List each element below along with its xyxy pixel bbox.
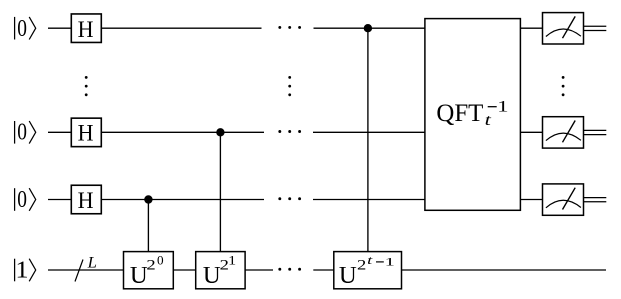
control dot c0 on q2	[144, 195, 152, 203]
meter q0	[543, 13, 584, 44]
bus slash L on target wire	[75, 255, 97, 282]
wire target right	[402, 269, 607, 271]
wire q0 to meter	[520, 27, 542, 29]
wire q2 left	[48, 199, 71, 201]
wire q1 left	[48, 131, 71, 133]
gate H q1	[71, 118, 101, 146]
ellipsis dots q0	[278, 26, 301, 29]
wire q1 to meter	[520, 131, 542, 133]
svg-text:H: H	[78, 121, 94, 146]
svg-text:0: 0	[157, 254, 164, 268]
classical double line q2	[584, 198, 607, 202]
vertical dots meter column	[562, 76, 565, 96]
ellipsis dots target	[278, 268, 301, 271]
wire q2 mid	[101, 199, 264, 201]
svg-text:H: H	[78, 17, 94, 42]
vertical dots H column	[85, 76, 88, 96]
svg-text:1: 1	[228, 254, 236, 268]
svg-text:L: L	[87, 255, 98, 272]
gate U 2^1	[196, 252, 245, 290]
wire q1 after dots	[313, 131, 425, 133]
vertical dots middle column	[288, 76, 291, 96]
gate U 2^0	[124, 252, 174, 290]
svg-text:QFT: QFT	[436, 100, 483, 127]
wire target left	[48, 269, 124, 271]
ellipsis dots q2	[278, 197, 301, 200]
control line c2 to U3	[367, 28, 369, 251]
wire q1 mid	[101, 131, 264, 133]
gate U 2^t-1	[334, 252, 402, 290]
svg-text:t: t	[485, 112, 492, 129]
svg-text:0: 0	[17, 186, 27, 213]
svg-text:1: 1	[497, 96, 508, 115]
gate H q2	[71, 185, 101, 214]
svg-text:U: U	[130, 262, 148, 289]
qubit label ket0 q0	[15, 15, 36, 42]
wire target U1-U2	[173, 269, 195, 271]
svg-text:U: U	[339, 262, 357, 289]
qubit label ket0 q1	[15, 119, 36, 146]
control line c0 to U1	[147, 200, 149, 252]
gate QFT inverse box	[425, 19, 521, 211]
meter q1	[543, 117, 584, 148]
control dot c2 on q0	[364, 24, 372, 32]
svg-text:0: 0	[17, 15, 27, 42]
wire q0 after dots	[314, 27, 426, 29]
control dot c1 on q1	[216, 128, 224, 136]
wire target dots-U3	[313, 269, 334, 271]
classical double line q0	[584, 26, 607, 30]
svg-text:2: 2	[357, 258, 366, 274]
meter q2	[543, 184, 584, 215]
svg-text:0: 0	[17, 119, 27, 146]
wire q0 mid	[101, 27, 261, 29]
qubit label ket0 q2	[15, 186, 36, 213]
svg-text:2: 2	[146, 258, 155, 274]
ellipsis dots q1	[278, 130, 301, 133]
svg-text:U: U	[203, 262, 221, 289]
wire q0 left	[48, 27, 71, 29]
wire q2 to meter	[520, 199, 542, 201]
wire target U2-dots	[245, 269, 273, 271]
classical double line q1	[584, 130, 607, 134]
wire q2 after dots	[313, 199, 425, 201]
control line c1 to U2	[219, 132, 221, 251]
svg-text:1: 1	[385, 254, 396, 268]
qubit label ket1 target	[15, 257, 36, 284]
svg-text:1: 1	[15, 257, 28, 284]
svg-text:H: H	[78, 188, 94, 213]
gate H q0	[71, 14, 101, 43]
